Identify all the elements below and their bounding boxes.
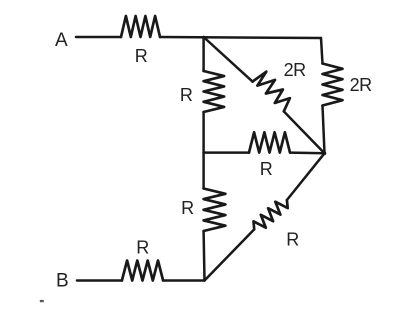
wire A lead xyxy=(76,36,121,39)
svg-text:R: R xyxy=(180,85,193,105)
resistor R4 xyxy=(249,132,290,152)
wire diagonal lower-left stub (node to R8) xyxy=(205,229,255,280)
wire left rail middle segment xyxy=(202,112,205,189)
svg-text:2R: 2R xyxy=(350,75,373,95)
wire left rail bottom stub xyxy=(202,231,205,281)
wire right rail lower stub xyxy=(323,106,325,154)
resistor R6 (2R right) xyxy=(323,64,343,106)
svg-text:2R: 2R xyxy=(284,60,307,80)
wire B lead xyxy=(77,279,122,282)
wire diagonal upper stub (junction to R3) xyxy=(204,37,253,82)
wire diagonal lower stub (R3 to node C) xyxy=(284,111,325,153)
stray dash mark xyxy=(40,300,44,302)
svg-text:R: R xyxy=(181,198,194,218)
resistor R5 xyxy=(204,189,226,232)
wire diagonal upper-right stub (R8 to node C) xyxy=(287,153,325,200)
wire middle lead left xyxy=(204,151,249,154)
resistor R3 (2R diagonal) xyxy=(253,72,290,112)
wire top rail xyxy=(160,37,321,38)
node C junction dot xyxy=(323,152,327,156)
wire middle lead right xyxy=(290,151,325,154)
resistor R8 xyxy=(254,200,288,229)
wire bottom rail xyxy=(163,279,204,282)
wire left rail upper stub xyxy=(202,37,205,71)
svg-text:A: A xyxy=(55,30,68,51)
wire right rail upper stub xyxy=(321,38,323,64)
svg-text:R: R xyxy=(135,46,148,66)
svg-text:R: R xyxy=(286,230,299,250)
resistor R7 xyxy=(122,261,163,281)
resistor R2 xyxy=(204,71,225,112)
svg-text:B: B xyxy=(56,271,69,292)
svg-text:R: R xyxy=(136,238,149,258)
svg-text:R: R xyxy=(260,159,273,179)
resistor R1 xyxy=(121,16,160,37)
